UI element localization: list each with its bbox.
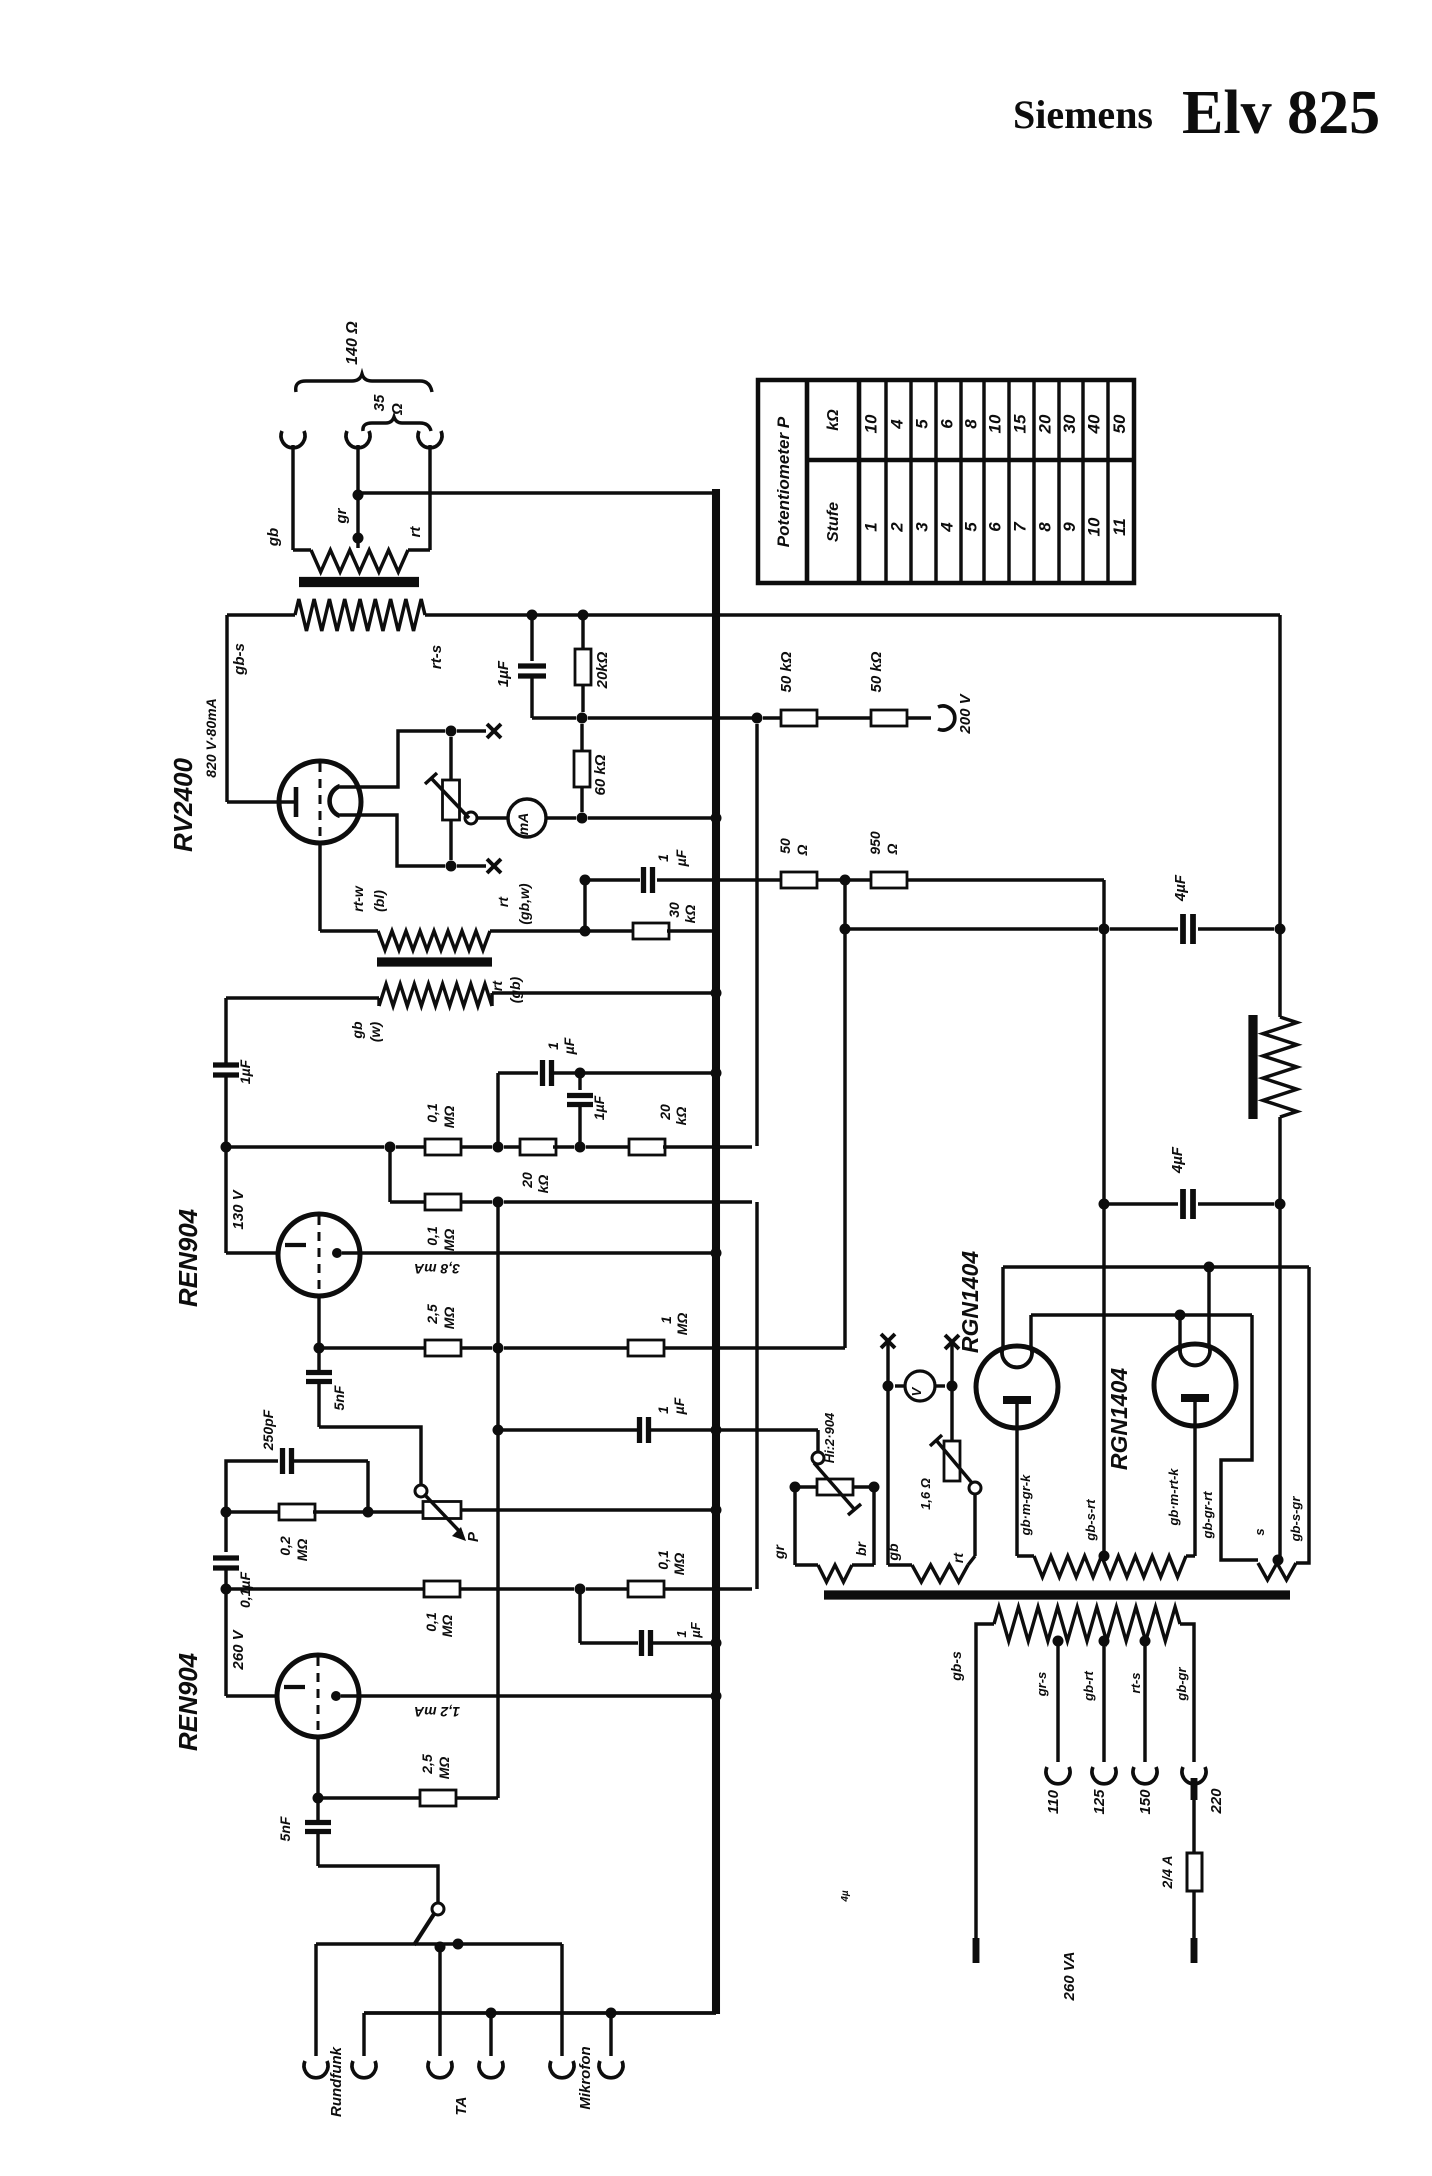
svg-text:1: 1	[862, 522, 881, 531]
svg-text:10: 10	[986, 414, 1005, 433]
right rail down to choke	[1278, 615, 1281, 929]
svg-text:3,8 mA: 3,8 mA	[414, 1261, 460, 1277]
wire 950 ohm node to 4uF line	[840, 924, 851, 935]
wire to Hi wiper	[719, 1428, 818, 1431]
svg-text:gb-gr: gb-gr	[1174, 1666, 1189, 1701]
terminal 200 V	[938, 706, 955, 730]
svg-text:4µF: 4µF	[1169, 1146, 1186, 1174]
capacitor 5nF	[317, 1348, 320, 1371]
vertical feed 757 down to 20k line	[755, 724, 758, 1146]
svg-text:20: 20	[1036, 414, 1055, 434]
wire 0,1M lower line y1202	[388, 1147, 391, 1202]
terminal Mikrofon left	[550, 2061, 574, 2078]
svg-text:6: 6	[938, 419, 957, 429]
svg-text:1: 1	[655, 1406, 671, 1414]
wire RV2400 filament down	[318, 843, 321, 931]
svg-text:9: 9	[1060, 522, 1079, 532]
wire gr tap to ground bus top	[358, 491, 713, 494]
wire primary left to RV2400 cathode	[227, 613, 295, 616]
svg-text:3: 3	[913, 522, 932, 532]
svg-text:1,2 mA: 1,2 mA	[414, 1704, 460, 1720]
svg-text:50: 50	[1110, 414, 1129, 433]
primary right lead gb-gr	[1180, 1624, 1194, 1762]
wire 1315 filament line	[1031, 1313, 1252, 1316]
svg-text:130 V: 130 V	[230, 1188, 247, 1229]
svg-text:MΩ: MΩ	[294, 1539, 310, 1562]
filament right leg to 1315 line	[1029, 1315, 1032, 1348]
svg-text:RGN1404: RGN1404	[957, 1251, 983, 1353]
node 1uF on rt-s line	[527, 610, 538, 621]
svg-text:MΩ: MΩ	[441, 1229, 457, 1252]
svg-text:50: 50	[777, 838, 793, 854]
svg-text:gb-s-rt: gb-s-rt	[1083, 1499, 1098, 1542]
wire right vertical to s winding	[1296, 1267, 1309, 1563]
wire filament line with 1uF	[585, 878, 640, 881]
rail 1104 vertical	[1102, 929, 1105, 1556]
svg-text:kΩ: kΩ	[825, 409, 842, 431]
speaker jack gb	[281, 431, 305, 448]
wire 880 line right of bus	[719, 878, 783, 881]
resistor 20 kOhm right	[586, 1145, 631, 1148]
wire cathode drop	[225, 615, 228, 802]
svg-text:gb-s-gr: gb-s-gr	[1288, 1496, 1303, 1543]
svg-text:rt: rt	[950, 1552, 966, 1563]
svg-text:150: 150	[1137, 1789, 1154, 1815]
svg-text:20: 20	[657, 1104, 673, 1121]
rail 1104 down	[1102, 880, 1105, 929]
primary left lead gb-s	[976, 1624, 994, 1940]
output transformer primary winding gb-s / rt-s	[295, 599, 425, 631]
tap terminals	[1046, 1767, 1070, 1784]
interstage transformer core	[377, 957, 492, 966]
capacitor 4uF lower	[1099, 1199, 1110, 1210]
brace 35 Ohm	[363, 417, 431, 431]
primary taps	[1053, 1636, 1064, 1647]
svg-text:µF: µF	[561, 1037, 577, 1055]
svg-text:REN904: REN904	[173, 1208, 203, 1307]
svg-text:gb·m-gr-k: gb·m-gr-k	[1018, 1474, 1033, 1536]
wire gb-gr-rt jog	[1221, 1315, 1258, 1560]
svg-text:20: 20	[519, 1172, 535, 1189]
tube2 filament down	[316, 1737, 319, 1798]
svg-text:rt: rt	[489, 980, 505, 991]
svg-text:mA: mA	[515, 813, 531, 836]
resistor 30 kOhm to bus	[585, 929, 635, 932]
wire Mikrofon left	[560, 1944, 563, 2056]
svg-text:Rundfunk: Rundfunk	[328, 2046, 345, 2117]
capacitor 1uF coupling	[213, 1062, 239, 1067]
resistor 50 kOhm second	[871, 710, 907, 726]
resistor 0,2 MOhm	[226, 1510, 280, 1513]
svg-text:kΩ: kΩ	[535, 1175, 551, 1194]
wire 1267 filament line	[1003, 1265, 1309, 1268]
table Potentiometer P	[758, 380, 1134, 583]
choke winding vertical	[1263, 1017, 1297, 1117]
tube2 filament legs	[1178, 1315, 1181, 1346]
svg-text:0,1: 0,1	[423, 1612, 439, 1632]
svg-text:µF: µF	[671, 1397, 687, 1415]
terminal Mikrofon right	[599, 2061, 623, 2078]
svg-text:10: 10	[1085, 517, 1104, 536]
svg-text:4: 4	[938, 522, 957, 533]
svg-text:V: V	[909, 1386, 924, 1396]
meter V	[886, 1341, 889, 1386]
svg-text:5: 5	[913, 419, 932, 429]
svg-text:Potentiometer P: Potentiometer P	[774, 416, 793, 547]
svg-text:8: 8	[1036, 522, 1055, 532]
svg-text:4µ: 4µ	[840, 1890, 851, 1903]
svg-text:rt-w: rt-w	[350, 885, 366, 912]
svg-text:0,2: 0,2	[277, 1536, 293, 1556]
svg-text:(w): (w)	[367, 1022, 383, 1043]
svg-text:MΩ: MΩ	[671, 1553, 687, 1576]
capacitor 250 pF	[226, 1461, 278, 1512]
capacitor 1uF 1073	[540, 1060, 545, 1086]
wire P line to bus	[461, 1508, 713, 1511]
svg-text:1: 1	[545, 1042, 561, 1050]
svg-text:Siemens: Siemens	[1013, 92, 1153, 137]
resistor 2,5 MOhm input	[318, 1796, 420, 1799]
wire bottom bus to terminals	[364, 2011, 716, 2015]
svg-text:MΩ: MΩ	[441, 1106, 457, 1129]
svg-text:50 kΩ: 50 kΩ	[778, 651, 795, 692]
svg-text:1: 1	[674, 1630, 689, 1637]
resistor 0,1 MOhm grid	[425, 1139, 461, 1155]
feed 757 down	[755, 1202, 758, 1589]
svg-text:RGN1404: RGN1404	[1106, 1368, 1132, 1470]
svg-text:TA: TA	[453, 2097, 470, 2116]
svg-text:MΩ: MΩ	[674, 1313, 690, 1336]
wire gb jack down	[291, 445, 294, 550]
node gr tap	[353, 490, 364, 501]
svg-text:(bl): (bl)	[371, 890, 387, 912]
svg-text:5nF: 5nF	[331, 1385, 347, 1410]
speaker jack gr	[346, 431, 370, 448]
rail 1280 down to s-winding tap	[1278, 1204, 1281, 1558]
resistor 60 kOhm	[580, 724, 583, 752]
ground terminals line	[362, 2013, 365, 2056]
wire to 200V terminal	[907, 716, 931, 719]
meter mA	[508, 799, 546, 837]
svg-text:gb-rt: gb-rt	[1081, 1671, 1096, 1702]
svg-text:5nF: 5nF	[277, 1816, 293, 1841]
brace 140 Ohm	[296, 374, 432, 392]
contact x bottom	[487, 859, 501, 873]
tube filament down	[317, 1296, 320, 1348]
x contact gb	[881, 1334, 895, 1348]
fuse 2/4 A	[1191, 1778, 1198, 1800]
x contact rt	[945, 1335, 959, 1349]
svg-text:11: 11	[1110, 518, 1129, 536]
rail down to tube2	[224, 1589, 227, 1696]
power transformer core	[824, 1590, 1290, 1599]
output transformer core	[299, 577, 419, 587]
tube REN904 first	[226, 1251, 278, 1254]
capacitor 0,1 uF	[224, 1512, 227, 1552]
svg-text:2/4 A: 2/4 A	[1159, 1856, 1175, 1890]
potentiometer P	[415, 1485, 427, 1497]
wire winding left to 130V rail	[226, 996, 379, 999]
power transformer primary	[994, 1607, 1180, 1641]
capacitor 4uF upper	[1180, 914, 1186, 944]
svg-text:gb·m-rt-k: gb·m-rt-k	[1166, 1468, 1181, 1527]
svg-text:MΩ: MΩ	[441, 1307, 457, 1330]
capacitor 1uF 1430	[637, 1417, 642, 1443]
svg-text:µF: µF	[688, 1621, 703, 1638]
wire between 50k resistors	[817, 716, 873, 719]
grid resistor 2,5 MOhm	[319, 1346, 425, 1349]
wire Rundfunk left	[314, 1944, 317, 2056]
svg-text:6: 6	[986, 522, 1005, 532]
wire anode lower lead	[340, 815, 445, 866]
svg-text:RV2400: RV2400	[168, 757, 198, 851]
svg-text:0,1: 0,1	[424, 1103, 440, 1123]
svg-text:4µF: 4µF	[1172, 874, 1189, 902]
svg-text:Ω: Ω	[794, 844, 810, 856]
capacitor 1uF	[530, 615, 533, 661]
svg-text:1µF: 1µF	[237, 1059, 253, 1084]
grid line y1147	[226, 1145, 384, 1148]
svg-text:Ω: Ω	[884, 843, 900, 855]
filament left leg to 1267 line	[1001, 1267, 1004, 1348]
wire winding right to bus	[490, 993, 493, 1006]
terminal Rundfunk right	[352, 2061, 376, 2078]
svg-text:rt: rt	[495, 896, 511, 907]
resistor 50 kOhm first	[763, 716, 783, 719]
winding gr-br	[793, 1487, 796, 1565]
svg-text:260 VA: 260 VA	[1061, 1952, 1078, 2002]
svg-text:30: 30	[1060, 414, 1079, 433]
svg-text:250pF: 250pF	[260, 1409, 276, 1451]
svg-text:gr-s: gr-s	[1034, 1672, 1049, 1698]
rheostat wiper	[465, 812, 477, 824]
resistor 20 kOhm mid	[504, 1145, 523, 1148]
svg-text:20kΩ: 20kΩ	[594, 651, 611, 689]
wire 1073 line	[496, 1073, 499, 1147]
capacitor 5nF input	[316, 1798, 319, 1820]
svg-text:Ω: Ω	[389, 403, 406, 416]
heater rheostat Hi 2x904	[812, 1452, 824, 1464]
speaker jack rt	[418, 431, 442, 448]
svg-text:35: 35	[371, 394, 388, 411]
svg-text:P: P	[465, 1531, 482, 1542]
contact x top	[487, 724, 501, 738]
svg-text:gr: gr	[333, 507, 350, 524]
interstage transformer winding rt-w (bl)	[378, 931, 490, 950]
wire meter line to bus	[588, 816, 713, 819]
wire 4uF top line	[845, 927, 1098, 930]
svg-text:8: 8	[962, 419, 981, 429]
tube REN904 second	[226, 1694, 277, 1697]
svg-text:5: 5	[962, 522, 981, 532]
tube RV2400	[279, 761, 361, 843]
svg-text:1: 1	[658, 1316, 674, 1324]
interstage winding gb(w) / rt(gb)	[379, 984, 492, 1006]
svg-text:Elv 825: Elv 825	[1182, 79, 1380, 147]
wire 950 to 1104 rail	[907, 878, 1104, 881]
svg-text:820 V·80mA: 820 V·80mA	[203, 698, 219, 777]
svg-text:gb-gr-rt: gb-gr-rt	[1200, 1491, 1215, 1540]
rail 130V	[224, 998, 227, 1065]
wire 718 line across bus	[588, 716, 752, 719]
choke with core	[1278, 929, 1281, 1017]
resistor 20 kOhm	[581, 615, 584, 650]
svg-text:br: br	[853, 1540, 869, 1556]
svg-text:Hi:2·904: Hi:2·904	[822, 1412, 837, 1463]
svg-text:kΩ: kΩ	[673, 1107, 689, 1126]
svg-text:1: 1	[655, 854, 671, 862]
tube RGN1404 first	[976, 1346, 1058, 1428]
wire gr jack down to winding tap	[356, 445, 359, 548]
svg-text:gr: gr	[771, 1543, 787, 1560]
svg-text:30: 30	[666, 902, 682, 918]
svg-text:0,1: 0,1	[424, 1226, 440, 1246]
svg-text:0,1: 0,1	[655, 1550, 671, 1570]
svg-text:125: 125	[1091, 1789, 1108, 1815]
svg-text:MΩ: MΩ	[439, 1615, 455, 1638]
svg-text:1µF: 1µF	[591, 1095, 607, 1120]
capacitor 1uF vertical at 580	[578, 1073, 581, 1090]
svg-text:1,6 Ω: 1,6 Ω	[918, 1478, 933, 1510]
rheostat anode-meter	[449, 737, 452, 780]
svg-text:2,5: 2,5	[419, 1754, 435, 1775]
svg-text:1µF: 1µF	[495, 660, 512, 687]
svg-text:gb: gb	[265, 528, 282, 547]
svg-text:rt: rt	[407, 526, 424, 538]
resistor 1 MOhm	[504, 1346, 628, 1349]
svg-text:s: s	[1252, 1528, 1267, 1535]
s winding	[1258, 1563, 1296, 1580]
rheostat 1,6 Ohm	[950, 1386, 953, 1441]
svg-text:REN904: REN904	[173, 1652, 203, 1751]
svg-text:2: 2	[888, 522, 907, 533]
svg-text:260 V: 260 V	[230, 1628, 247, 1670]
svg-text:7: 7	[1011, 521, 1030, 532]
ground bus (thick vertical chassis line)	[712, 489, 720, 2014]
winding gb-rt	[886, 1386, 889, 1565]
resistor 950 Ohm	[871, 872, 907, 888]
wire up to 1073 rail	[496, 1202, 499, 1798]
wire rt jack down	[428, 445, 431, 550]
resistor 50 Ohm	[781, 872, 817, 888]
svg-text:220: 220	[1208, 1788, 1225, 1815]
svg-text:gb: gb	[885, 1543, 901, 1562]
svg-text:(gb): (gb)	[507, 976, 523, 1003]
svg-text:gb-s: gb-s	[231, 643, 248, 676]
svg-text:Stufe: Stufe	[825, 502, 842, 542]
svg-text:4: 4	[888, 419, 907, 430]
terminal TA right	[479, 2061, 503, 2078]
terminal Rundfunk left	[304, 2061, 328, 2078]
tube RGN1404 second	[1154, 1344, 1236, 1426]
capacitor 1uF at 1643	[578, 1589, 581, 1643]
main filament winding	[1017, 1554, 1034, 1557]
svg-text:rt-s: rt-s	[428, 645, 445, 669]
svg-text:rt-s: rt-s	[1128, 1673, 1143, 1694]
svg-text:gb-s: gb-s	[948, 1651, 964, 1682]
output transformer secondary winding	[311, 550, 408, 572]
wire anode to meter branch	[340, 731, 445, 787]
wire TA left	[438, 1947, 441, 2056]
svg-text:2,5: 2,5	[424, 1304, 440, 1325]
grid line y1589	[226, 1587, 424, 1590]
resistor 0,1 MOhm lower	[425, 1194, 461, 1210]
svg-text:60 kΩ: 60 kΩ	[592, 754, 609, 795]
svg-text:110: 110	[1045, 1789, 1062, 1814]
svg-text:200 V: 200 V	[957, 692, 974, 734]
terminal TA left	[428, 2061, 452, 2078]
svg-text:MΩ: MΩ	[436, 1757, 452, 1780]
svg-text:kΩ: kΩ	[682, 905, 698, 924]
svg-text:50 kΩ: 50 kΩ	[868, 651, 885, 692]
switch input selector	[432, 1903, 444, 1915]
svg-text:gb: gb	[349, 1021, 365, 1040]
svg-text:15: 15	[1011, 414, 1030, 433]
svg-text:10: 10	[862, 414, 881, 433]
vertical 585 filament to 30k line	[583, 880, 586, 931]
svg-text:950: 950	[867, 831, 883, 855]
svg-text:140 Ω: 140 Ω	[344, 321, 361, 365]
switch line	[316, 1942, 562, 1945]
wire rt-s line to right rail	[425, 613, 1280, 616]
svg-text:(gb,w): (gb,w)	[516, 883, 532, 925]
svg-text:40: 40	[1085, 414, 1104, 434]
wire bus to heater rheostat	[711, 1425, 722, 1436]
svg-text:µF: µF	[673, 849, 689, 867]
resistor 0,1 MOhm input	[424, 1581, 460, 1597]
resistor 0,1 MOhm to rail	[586, 1587, 628, 1590]
svg-text:Mikrofon: Mikrofon	[577, 2046, 594, 2109]
